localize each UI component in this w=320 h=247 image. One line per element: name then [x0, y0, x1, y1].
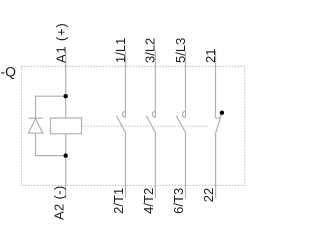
mechanical link dashed line — [82, 125, 210, 127]
svg-text:A2 (-): A2 (-) — [51, 185, 66, 220]
svg-text:6/T3: 6/T3 — [171, 188, 186, 214]
diode V1 cathode bar — [29, 117, 43, 119]
contact 5/L3-6/T3 top wire — [185, 51, 187, 111]
node junction dot top — [63, 94, 67, 98]
aux NC fixed contact stub — [216, 117, 221, 119]
contact 2 bottom wire — [154, 133, 156, 199]
contact 2 fixed contact arc — [152, 111, 155, 117]
contact 3/L2-4/T2 top wire — [154, 51, 156, 111]
svg-text:3/L2: 3/L2 — [143, 38, 158, 63]
node junction dot bottom — [63, 153, 67, 157]
wire A1 terminal to coil — [65, 51, 67, 118]
aux NC contact 21-22 top wire — [215, 51, 217, 118]
contact 1 moving contact — [116, 116, 125, 133]
svg-text:22: 22 — [201, 188, 216, 202]
diode V1 triangle — [29, 119, 43, 134]
wire diode to bottom junction — [36, 133, 66, 155]
aux NC bottom wire — [215, 133, 217, 199]
aux NC moving contact — [216, 114, 222, 133]
svg-text:2/T1: 2/T1 — [111, 188, 126, 214]
contact 1 fixed contact arc — [122, 111, 125, 117]
coil K rectangle — [51, 118, 82, 134]
wire branch top to diode — [36, 96, 66, 118]
svg-text:1/L1: 1/L1 — [113, 38, 128, 63]
svg-text:-Q: -Q — [1, 64, 17, 80]
contact 1 bottom wire — [125, 133, 127, 199]
contact 1/L1-2/T1 top wire — [125, 51, 127, 111]
contact 2 moving contact — [146, 116, 155, 133]
wire coil to A2 terminal — [65, 134, 67, 199]
contact 3 fixed contact arc — [182, 111, 185, 117]
svg-text:A1 (+): A1 (+) — [53, 22, 68, 63]
contact 3 moving contact — [176, 116, 185, 133]
svg-text:5/L3: 5/L3 — [173, 38, 188, 63]
svg-text:21: 21 — [203, 49, 218, 63]
enclosure dashed border — [22, 66, 245, 185]
contact 3 bottom wire — [185, 133, 187, 199]
svg-text:4/T2: 4/T2 — [141, 188, 156, 214]
aux NC contact dot — [220, 111, 224, 115]
